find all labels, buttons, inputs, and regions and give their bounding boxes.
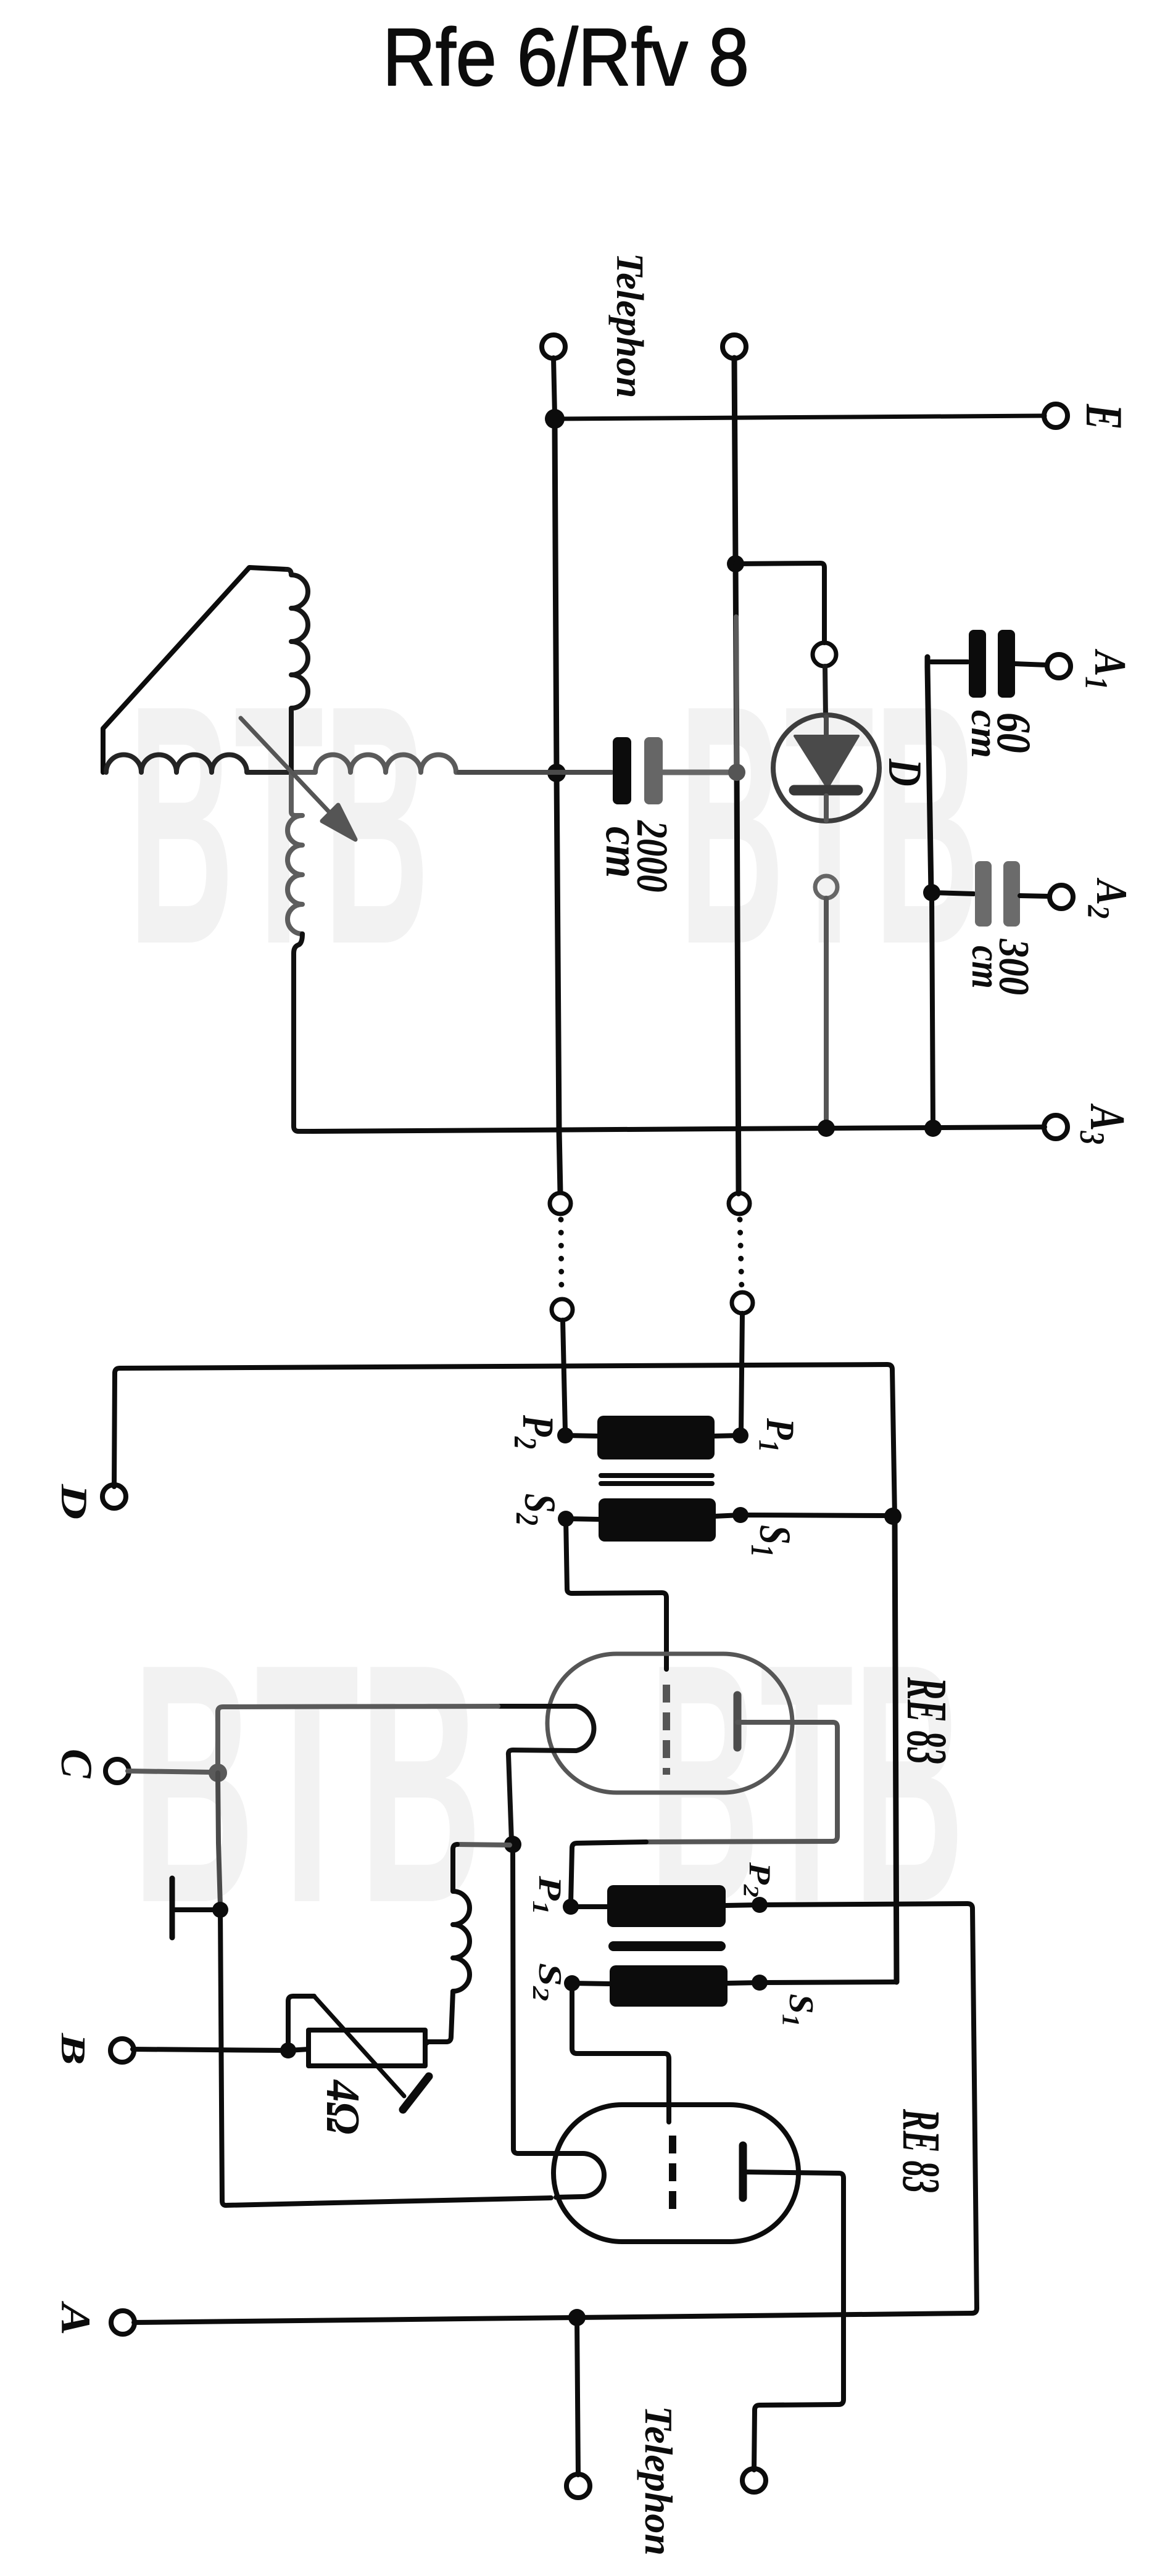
wire B xyxy=(133,2049,309,2050)
node A junction xyxy=(568,2309,586,2326)
svg-text:cm: cm xyxy=(963,946,1008,989)
node diode branch junction xyxy=(727,555,744,572)
terminal telephon bottom left xyxy=(566,2474,590,2498)
wire lower coil to A3 bus xyxy=(294,934,312,1131)
wire telephon right vertical xyxy=(734,358,739,1194)
svg-text:BTB: BTB xyxy=(679,635,980,1015)
svg-text:S1: S1 xyxy=(744,1525,800,1557)
wire plate V1 to P1 T2 xyxy=(646,1722,837,1842)
wire filament bottom V1 down xyxy=(512,1841,582,2153)
terminal A3 xyxy=(1044,1115,1068,1139)
terminal A2 xyxy=(1050,885,1073,909)
label 2000 cm xyxy=(596,820,677,892)
node diode/A3 junction xyxy=(818,1120,835,1137)
wire C to junction xyxy=(128,1771,213,1772)
node A3 junction xyxy=(924,1120,942,1137)
wire S2 T2 to grid V2 xyxy=(572,1983,669,2122)
node S2 (T2) xyxy=(564,1975,580,1991)
svg-text:P1: P1 xyxy=(528,1875,568,1915)
terminal Telephon left xyxy=(542,335,565,358)
battery cell xyxy=(172,1878,214,1938)
watermark bottom xyxy=(132,1593,964,1974)
triode V2 RE83 xyxy=(553,2105,798,2242)
wire plate V2 to telephon xyxy=(743,2172,844,2470)
wire A junction to telephon left xyxy=(577,2318,578,2475)
wire plug left to P2 xyxy=(563,1320,565,1431)
coil choke (filament) xyxy=(428,1844,470,2042)
terminal telephon bottom right xyxy=(742,2469,766,2492)
terminal D xyxy=(102,1485,126,1508)
wire choke top (gray) xyxy=(457,1844,510,1845)
svg-text:E: E xyxy=(1075,403,1133,429)
svg-text:Telephon: Telephon xyxy=(608,253,650,398)
wire S1 winding (T2) xyxy=(728,1983,760,1983)
svg-text:A3: A3 xyxy=(1072,1104,1135,1145)
wire P1 to winding (T2) xyxy=(571,1904,607,1909)
node A2 branch junction xyxy=(923,884,940,901)
wire P2 winding (T2) xyxy=(726,1905,760,1905)
svg-text:S2: S2 xyxy=(528,1963,568,2001)
antenna xyxy=(103,568,287,772)
socket terminal diode bottom xyxy=(815,876,837,898)
wire plug right to P1 xyxy=(741,1313,742,1431)
coil L2 antenna vertical upper xyxy=(287,569,308,773)
svg-text:4Ω: 4Ω xyxy=(317,2079,369,2134)
wire telephon left vertical (top) xyxy=(553,358,555,415)
svg-text:D: D xyxy=(53,1484,94,1519)
wire P2 to winding xyxy=(565,1435,599,1436)
node battery junction xyxy=(212,1902,228,1918)
node filament/choke junction xyxy=(504,1836,521,1853)
svg-text:BTB: BTB xyxy=(128,635,429,1015)
wire diode to A3 bus xyxy=(824,898,829,1125)
svg-text:B: B xyxy=(54,2033,93,2065)
terminal Telephon right xyxy=(723,335,746,358)
wire A1 branch vertical xyxy=(927,657,931,891)
node S1 (T1) xyxy=(732,1507,748,1523)
wire A2 branch to A3 xyxy=(932,893,933,1125)
transformer T2 xyxy=(607,1885,728,2007)
wire telephon left vertical (middle) xyxy=(555,423,560,1192)
terminal E xyxy=(1044,404,1068,427)
node P1 (T2) xyxy=(563,1899,579,1915)
svg-text:Telephon: Telephon xyxy=(637,2406,681,2556)
terminal A xyxy=(111,2311,135,2334)
terminal B xyxy=(110,2039,134,2062)
connector plug left xyxy=(550,1193,573,1320)
wire S2 winding (T2) xyxy=(572,1983,610,1984)
wire S1 to frame vertical xyxy=(760,1982,897,1983)
coil L1b antenna coil right (gray) xyxy=(293,755,459,773)
node S1 (T2) xyxy=(752,1975,768,1991)
node frame/S1 junction xyxy=(884,1508,902,1525)
wire A line xyxy=(134,2308,977,2322)
wire E line xyxy=(555,416,1045,419)
wire A3 bus xyxy=(312,1127,1045,1131)
triode V1 RE83 xyxy=(498,1654,792,1841)
node P2 (T1) xyxy=(557,1427,573,1443)
svg-text:A1: A1 xyxy=(1079,648,1135,690)
svg-text:Rfe 6/Rfv 8: Rfe 6/Rfv 8 xyxy=(383,12,749,102)
transformer T1 xyxy=(597,1416,716,1542)
capacitor C3 300 cm xyxy=(932,861,1050,927)
node S2 (T1) xyxy=(558,1511,574,1527)
wire plate V1 to P1 T2 (black part) xyxy=(571,1842,646,1904)
wire S2 to grid V1 xyxy=(566,1519,666,1669)
capacitor C2 60 cm xyxy=(931,630,1047,698)
node C junction xyxy=(209,1764,227,1782)
wire D stub xyxy=(114,1373,115,1487)
capacitor C1 2000 cm xyxy=(459,737,729,804)
svg-text:BTB: BTB xyxy=(132,1594,482,1974)
connector plug right xyxy=(729,1193,753,1313)
node C1/telephon junction (gray) xyxy=(728,764,745,781)
wire frame right vertical xyxy=(895,1516,897,1982)
diode D xyxy=(773,715,879,821)
svg-text:S1: S1 xyxy=(777,1994,819,2027)
svg-text:A2: A2 xyxy=(1080,877,1136,919)
svg-text:S2: S2 xyxy=(509,1493,565,1525)
node P2 (T2) xyxy=(752,1897,768,1913)
svg-text:cm: cm xyxy=(963,710,1006,758)
terminal C xyxy=(106,1759,129,1783)
terminal A1 xyxy=(1047,654,1071,678)
wire diode branch xyxy=(736,563,824,643)
svg-text:P1: P1 xyxy=(753,1418,803,1452)
svg-text:cm: cm xyxy=(596,827,649,878)
wire gray overlay near C1 junction xyxy=(736,617,737,765)
node B junction xyxy=(280,2042,296,2058)
node coil/telephon junction xyxy=(547,764,566,782)
svg-text:RE 83: RE 83 xyxy=(892,2108,951,2193)
wire S1 to frame xyxy=(715,1515,889,1516)
wire S2 to winding xyxy=(566,1519,600,1519)
node P1 (T1) xyxy=(732,1427,748,1443)
svg-text:A: A xyxy=(52,2301,99,2335)
wire D frame top xyxy=(115,1364,895,1516)
wire P1 to winding xyxy=(715,1435,740,1436)
node E junction xyxy=(545,409,565,429)
variometer arrow xyxy=(241,718,355,840)
wire battery vertical to filament V2 xyxy=(220,1910,551,2205)
wire C junction down xyxy=(218,1773,220,1906)
svg-text:D: D xyxy=(878,758,931,786)
rheostat 4 ohm xyxy=(288,1996,429,2110)
wire P2 T2 to right rail xyxy=(760,1904,977,2308)
watermark top xyxy=(128,635,980,1015)
svg-text:C: C xyxy=(52,1749,102,1779)
wire C junction up to filament top V1 xyxy=(218,1706,498,1773)
svg-text:P2: P2 xyxy=(507,1414,563,1449)
svg-text:RE 83: RE 83 xyxy=(895,1677,958,1764)
wire diode top lead xyxy=(825,666,826,717)
label 300 cm xyxy=(963,938,1037,995)
label 60 cm xyxy=(963,710,1041,758)
coil L3 vertical lower (gray) xyxy=(288,773,302,934)
coil L1a antenna coil left xyxy=(106,755,289,773)
socket terminal diode top xyxy=(813,643,836,666)
